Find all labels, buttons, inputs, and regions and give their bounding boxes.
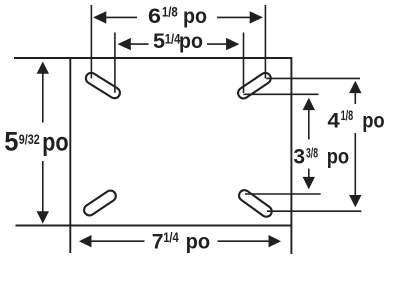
extension line for 6 1/8 left bbox=[90, 5, 92, 78]
svg-text:po: po bbox=[179, 29, 203, 53]
extension line for 5 1/4 right bbox=[243, 33, 245, 94]
arrowhead 6 1/8 right bbox=[250, 11, 263, 23]
dimension 7 1/4 right shaft bbox=[218, 240, 270, 242]
svg-text:po: po bbox=[186, 229, 211, 253]
svg-text:1/8: 1/8 bbox=[162, 5, 178, 20]
plate right edge bbox=[290, 57, 292, 254]
slot hole top-right bbox=[236, 71, 273, 101]
extension line for 4 1/8 bottom bbox=[267, 210, 361, 212]
svg-text:1/8: 1/8 bbox=[341, 107, 354, 123]
plate left edge bbox=[69, 57, 71, 253]
extension line for 5 1/4 left bbox=[114, 33, 116, 93]
arrowhead 5 1/4 right bbox=[226, 38, 239, 50]
svg-text:po: po bbox=[183, 5, 207, 28]
extension line for 3 3/8 bottom bbox=[245, 193, 321, 195]
slot hole top-left bbox=[84, 71, 122, 100]
svg-text:3/8: 3/8 bbox=[306, 144, 318, 160]
arrowhead 4 1/8 top bbox=[349, 81, 361, 93]
slot hole bottom-left bbox=[82, 188, 118, 217]
svg-text:7: 7 bbox=[152, 229, 164, 253]
arrowhead 3 3/8 bottom bbox=[303, 177, 315, 189]
svg-text:1/4: 1/4 bbox=[163, 230, 179, 245]
arrowhead 5 1/4 left bbox=[118, 38, 131, 50]
svg-text:4: 4 bbox=[328, 108, 340, 132]
plate top edge bbox=[14, 57, 292, 59]
slot hole bottom-right bbox=[237, 188, 274, 219]
svg-text:po: po bbox=[362, 108, 385, 132]
dimension 4 1/8 top shaft bbox=[354, 92, 356, 105]
svg-text:3: 3 bbox=[293, 145, 305, 169]
arrowhead 5 9/32 top bbox=[37, 62, 49, 74]
dimension 5 9/32 top shaft bbox=[42, 73, 44, 123]
svg-text:po: po bbox=[42, 127, 69, 157]
arrowhead 7 1/4 left bbox=[79, 235, 92, 247]
arrowhead 5 9/32 bottom bbox=[37, 211, 49, 223]
dimension 3 3/8 bottom shaft bbox=[308, 169, 310, 179]
dimension 6 1/8 left shaft bbox=[106, 16, 138, 18]
dimension 3 3/8 top shaft bbox=[308, 109, 310, 140]
arrowhead 3 3/8 top bbox=[303, 98, 315, 110]
svg-text:6: 6 bbox=[148, 5, 161, 28]
extension line for 3 3/8 top bbox=[244, 93, 319, 95]
svg-text:9/32: 9/32 bbox=[19, 131, 40, 147]
arrowhead 7 1/4 right bbox=[269, 235, 282, 247]
arrowhead 6 1/8 left bbox=[93, 11, 106, 23]
dimension 4 1/8 bottom shaft bbox=[354, 133, 356, 197]
extension line for 6 1/8 right bbox=[264, 5, 266, 78]
dimension 5 1/4 left shaft bbox=[130, 43, 149, 45]
arrowhead 4 1/8 bottom bbox=[349, 195, 361, 207]
dimension 7 1/4 left shaft bbox=[91, 240, 145, 242]
dimension 6 1/8 right shaft bbox=[217, 16, 251, 18]
dimension 5 9/32 bottom shaft bbox=[42, 161, 44, 213]
svg-text:5: 5 bbox=[4, 127, 18, 157]
svg-text:po: po bbox=[327, 145, 349, 169]
plate bottom edge bbox=[16, 225, 293, 227]
dimension 5 1/4 right shaft bbox=[207, 43, 227, 45]
extension line for 4 1/8 top bbox=[266, 77, 360, 79]
svg-text:5: 5 bbox=[153, 29, 165, 53]
